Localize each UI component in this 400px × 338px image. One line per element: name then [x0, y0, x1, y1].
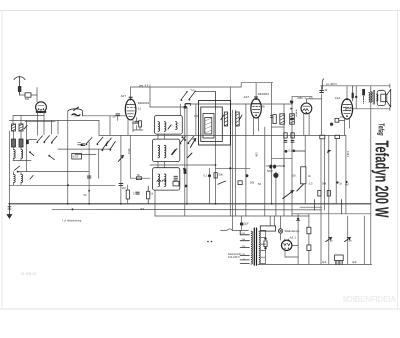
svg-text:50k: 50k — [322, 182, 327, 186]
junction dots pack — [182, 136, 184, 138]
wire — [36, 88, 38, 103]
tick dark — [345, 181, 347, 183]
wire — [25, 121, 55, 123]
wire — [261, 238, 266, 258]
coil L5 loops — [14, 150, 16, 159]
tone resistor dark — [362, 89, 365, 103]
wire — [321, 86, 323, 135]
wire tube3 top — [255, 83, 257, 99]
band switch S1b — [51, 136, 57, 144]
svg-text:0,5: 0,5 — [309, 181, 313, 185]
wire — [154, 190, 156, 216]
band switch S1a — [29, 136, 54, 160]
trimmer arrow — [187, 153, 192, 158]
cap on avc line — [119, 184, 123, 186]
wire — [363, 216, 365, 264]
label stems — [315, 200, 342, 214]
field coil arrow — [326, 238, 332, 242]
junction dot — [355, 96, 357, 98]
svg-text:IIDIBENFIDEIA: IIDIBENFIDEIA — [343, 295, 396, 304]
resistor 1k — [147, 191, 150, 199]
electrolytic dark — [273, 173, 278, 178]
wire switch stubs — [38, 120, 59, 135]
svg-text:4µF: 4µF — [322, 260, 327, 264]
wire long right — [370, 86, 372, 265]
wire — [75, 154, 96, 156]
svg-text:1344: 1344 — [346, 151, 350, 157]
wire — [13, 147, 15, 150]
svg-text:2M: 2M — [122, 186, 126, 190]
coil L8 loops — [21, 175, 23, 183]
wire HT rail — [99, 134, 346, 136]
coil box — [290, 114, 295, 124]
main ground bus — [9, 203, 370, 205]
bus box 1 — [318, 191, 321, 197]
wire — [241, 216, 243, 230]
coil — [158, 174, 160, 187]
junction dot — [17, 171, 19, 173]
arrow — [297, 184, 304, 191]
wire — [355, 86, 357, 109]
rectifier tube V6 AZ1 — [282, 240, 292, 250]
mains cap — [240, 223, 243, 226]
wire — [20, 158, 22, 161]
junction dot y185 — [67, 184, 69, 186]
wire — [285, 251, 298, 258]
svg-text:ABC 1: ABC 1 — [297, 96, 306, 100]
wave switch arm — [15, 166, 20, 170]
svg-text:50k: 50k — [250, 181, 255, 185]
svg-text:5000: 5000 — [267, 169, 273, 173]
wire — [20, 183, 22, 186]
speaker — [377, 89, 391, 107]
voltage selector box — [260, 226, 275, 231]
svg-text:21 508 13: 21 508 13 — [21, 272, 36, 276]
wire — [179, 104, 181, 116]
wire secondary taps — [261, 230, 266, 263]
wire — [13, 131, 15, 139]
svg-text:3k6: 3k6 — [140, 207, 145, 211]
resistor — [264, 241, 267, 247]
svg-text:AL4: AL4 — [335, 96, 341, 100]
wire — [308, 214, 310, 265]
osc coil w trimmers — [221, 112, 242, 126]
wire lamp chain — [280, 216, 282, 240]
small arrow left coils — [24, 125, 27, 128]
resistor 50k — [214, 173, 217, 178]
wire — [275, 172, 277, 216]
switch S5 — [180, 136, 194, 144]
padder box — [72, 153, 82, 159]
wire mains feed — [221, 229, 249, 231]
coil L3 — [12, 139, 16, 147]
wire speaker bottom — [346, 108, 390, 110]
resistor box — [173, 181, 179, 186]
bus C — [155, 215, 309, 217]
coupling cap dark — [330, 123, 333, 126]
wire ta loop — [196, 92, 216, 111]
wire — [58, 148, 110, 150]
dark dot — [88, 190, 90, 192]
wire — [20, 172, 22, 175]
resistor stubs 1k — [147, 186, 149, 204]
power transformer — [240, 228, 260, 265]
cap dark — [245, 174, 248, 177]
wire long left horizontal — [9, 119, 99, 121]
wire — [13, 183, 15, 186]
coil — [164, 174, 166, 187]
smoothing resistor — [307, 227, 311, 234]
output transformer windings — [369, 90, 378, 104]
svg-text:110-240 V: 110-240 V — [228, 255, 240, 259]
svg-text:ges. 4,5 V: ges. 4,5 V — [139, 84, 151, 88]
wire — [345, 135, 347, 213]
small box pair — [238, 181, 242, 185]
trimmer arrow — [168, 125, 171, 129]
svg-text:100: 100 — [194, 114, 199, 118]
coupling cap top — [320, 91, 324, 93]
cap dark — [208, 174, 211, 177]
wire — [98, 120, 100, 135]
coil hatch — [19, 124, 23, 131]
wire coil pack links — [158, 134, 164, 168]
cap small — [136, 192, 139, 194]
wire — [20, 131, 22, 139]
coil — [164, 145, 166, 158]
wire — [321, 139, 324, 265]
tick marks — [389, 84, 391, 88]
wire tube5 top — [346, 86, 348, 99]
wire — [120, 135, 122, 203]
wire — [67, 111, 69, 204]
wire — [232, 110, 234, 230]
wire tube5 leads — [345, 119, 350, 136]
wire — [20, 116, 22, 125]
wire rect leads — [285, 239, 289, 241]
small arrow — [30, 175, 33, 179]
heater dots — [264, 238, 266, 240]
RC box top2 — [291, 133, 294, 138]
wire — [117, 116, 119, 121]
svg-text:4µF: 4µF — [352, 260, 357, 264]
smoothing resistor — [307, 245, 311, 251]
arrow — [172, 149, 177, 155]
wire — [266, 165, 284, 167]
avc dashed line — [295, 110, 297, 117]
tick dark — [336, 181, 338, 183]
svg-text:0,1: 0,1 — [138, 106, 142, 110]
resistor box — [335, 135, 340, 138]
wire tube1 leads — [38, 113, 45, 121]
tone cap blob — [352, 93, 354, 98]
wire — [186, 107, 188, 204]
wire — [83, 115, 126, 117]
coil L6 loops — [21, 150, 23, 159]
svg-text:500: 500 — [25, 97, 30, 101]
coil L2 — [19, 124, 23, 131]
grid cap clip V3 — [255, 96, 258, 98]
wire power feeds — [270, 216, 274, 226]
wire tube4 leads — [304, 114, 309, 136]
resistor box — [320, 135, 325, 139]
junction blob left — [26, 140, 29, 145]
junction dot — [297, 218, 299, 220]
wire — [149, 87, 151, 107]
screen resistor — [126, 190, 129, 199]
junction blob — [184, 169, 187, 174]
secondary winding — [259, 231, 261, 264]
avc arrow — [118, 156, 123, 162]
coil L7 loops — [14, 175, 16, 183]
field coil arrow — [345, 238, 351, 242]
coil — [176, 122, 178, 130]
wire — [18, 171, 89, 173]
wire top right HT — [321, 85, 390, 87]
coil box — [280, 114, 285, 124]
svg-text:AF7: AF7 — [121, 94, 127, 98]
coil L4 — [19, 139, 23, 147]
coil hatch — [12, 124, 16, 131]
svg-text:6750: 6750 — [73, 156, 79, 159]
band switch S3 — [102, 142, 116, 152]
wire — [9, 184, 115, 186]
cap marks — [81, 144, 84, 146]
primary winding — [251, 231, 253, 264]
switch arm — [218, 181, 226, 184]
wire — [98, 149, 100, 178]
electrolytic block — [335, 255, 344, 265]
wire — [209, 168, 211, 204]
wire — [304, 135, 306, 203]
wire top box af7 — [241, 82, 273, 84]
wire tube2 leads — [128, 120, 133, 136]
wire bottom rail — [258, 263, 372, 265]
wire — [88, 142, 90, 204]
connector bracket — [186, 103, 191, 105]
wire grid line left — [13, 115, 44, 117]
TA switch — [181, 91, 197, 102]
wire — [272, 159, 293, 166]
tube V1 REN904 — [36, 102, 47, 113]
wire — [150, 106, 187, 108]
coil pack box 1 — [155, 116, 183, 135]
coil — [164, 122, 166, 132]
wire — [109, 116, 111, 136]
svg-text:REN904: REN904 — [258, 92, 270, 96]
cap dark — [285, 150, 288, 153]
wire short — [29, 139, 37, 141]
svg-text:110k: 110k — [127, 148, 131, 154]
grid cap C 20 — [116, 114, 120, 116]
coil — [158, 122, 160, 132]
wire — [20, 147, 22, 150]
svg-text:0,1: 0,1 — [204, 174, 208, 178]
band switch S2 — [78, 137, 112, 146]
grid resistor arrow dark — [327, 150, 331, 154]
tube V3 AF7 — [251, 98, 261, 118]
anode resistor — [271, 115, 277, 124]
wire — [272, 126, 284, 128]
RC box top1 — [284, 133, 287, 142]
resistor on wire — [137, 177, 142, 180]
svg-text:Tefag: Tefag — [377, 123, 387, 136]
bus B — [52, 208, 322, 211]
antenna coil L1 — [12, 124, 16, 131]
wire — [133, 118, 143, 131]
bus box 2 — [327, 191, 330, 197]
wire — [264, 127, 266, 216]
pot arrow — [283, 191, 294, 199]
wire — [240, 83, 242, 87]
wire — [130, 177, 150, 179]
tube V5 AL4 — [341, 98, 352, 119]
coil hatch — [280, 115, 285, 124]
dots — [290, 100, 292, 102]
wire — [150, 164, 216, 166]
junction square — [184, 106, 187, 109]
trimmer cap antenna — [68, 107, 83, 116]
wire af rail — [185, 103, 292, 105]
cathode cap 20 — [135, 121, 142, 127]
svg-text:REN904: REN904 — [138, 101, 150, 105]
wire — [292, 214, 298, 265]
svg-text:4k7: 4k7 — [345, 183, 350, 187]
wire long — [271, 83, 273, 204]
wire — [235, 110, 237, 216]
wire — [13, 158, 15, 161]
caps row — [157, 180, 166, 182]
svg-text:AF7: AF7 — [244, 95, 250, 99]
wire — [291, 97, 293, 216]
cap marks — [87, 176, 91, 178]
wire — [12, 116, 14, 125]
wire — [129, 135, 131, 178]
antenna series capacitor — [25, 93, 31, 97]
wire — [328, 135, 330, 264]
padder caps — [174, 176, 177, 180]
wire tube4 top — [305, 99, 307, 103]
dots pair — [207, 241, 209, 243]
tube V2 AF7 — [125, 98, 136, 120]
wire — [215, 92, 217, 204]
wire antenna link — [20, 94, 38, 96]
wire — [306, 98, 321, 100]
core — [254, 228, 256, 265]
svg-text:AZ 1: AZ 1 — [290, 236, 297, 240]
wire — [216, 167, 251, 169]
svg-text:100: 100 — [291, 173, 296, 177]
wire top grid line — [131, 86, 242, 88]
wire tube2 topcap — [130, 87, 132, 99]
coil pack box 2 — [153, 139, 180, 161]
svg-text:0,5: 0,5 — [309, 96, 313, 100]
ground — [7, 204, 12, 219]
wire — [283, 104, 285, 216]
svg-text:50k: 50k — [219, 173, 224, 177]
svg-text:0,1: 0,1 — [288, 148, 292, 152]
wire — [8, 131, 10, 204]
svg-text:f. d. Abstimmung: f. d. Abstimmung — [62, 219, 82, 223]
wire — [184, 104, 186, 216]
wire — [13, 172, 15, 175]
junction dots bus — [9, 164, 285, 205]
wire — [347, 216, 349, 264]
wire — [13, 160, 31, 162]
IF shield box nest — [199, 101, 231, 146]
dark caps left of V4 — [290, 101, 294, 120]
volume pot box — [301, 167, 306, 184]
bus short — [300, 206, 322, 208]
coil pack box 3 — [153, 168, 180, 190]
antenna — [14, 76, 25, 95]
wire — [26, 120, 28, 171]
coil — [158, 145, 160, 158]
trimmer arrow — [172, 150, 176, 155]
svg-text:2µF: 2µF — [244, 222, 249, 226]
wire tube3 leads — [254, 118, 259, 136]
wire — [127, 185, 129, 204]
wire — [245, 104, 247, 216]
curly brace — [321, 79, 324, 93]
coil hatch — [290, 115, 295, 124]
svg-text:170: 170 — [340, 115, 345, 119]
svg-text:T.A.: T.A. — [191, 89, 195, 92]
svg-text:50k: 50k — [255, 153, 259, 158]
bus D — [292, 213, 371, 215]
svg-text:Skalenlampe: Skalenlampe — [285, 229, 301, 233]
wire — [229, 87, 231, 216]
tube V4 ABC1 — [301, 103, 312, 114]
svg-text:Tefadyn 200 W: Tefadyn 200 W — [371, 141, 391, 218]
busB contact — [72, 208, 74, 210]
grid cap clip — [129, 96, 132, 98]
cap dark — [185, 185, 188, 188]
wire — [195, 104, 197, 135]
big trimmer arrow — [190, 139, 195, 148]
dial lamp — [278, 229, 282, 233]
svg-text:ca. 300 V: ca. 300 V — [326, 82, 337, 86]
primary taps — [240, 235, 249, 264]
cathode resistor V5 — [335, 118, 345, 122]
cap dark pair — [269, 165, 272, 169]
wire abc1 box — [292, 96, 312, 98]
wire — [335, 139, 337, 204]
